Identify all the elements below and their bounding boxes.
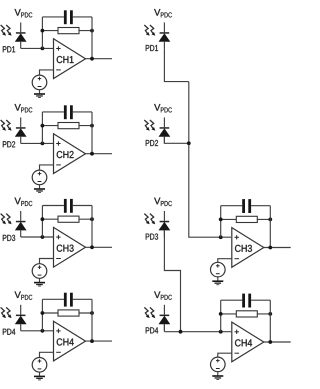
junction node resistor left (CH4) bbox=[41, 311, 45, 315]
wire - input of CH3 to bias source bbox=[218, 259, 232, 263]
output wire of CH4 bbox=[86, 340, 113, 342]
wire from anode of PD2 bbox=[20, 137, 22, 144]
label PD2 bbox=[3, 141, 15, 147]
junction node resistor right (CH4) bbox=[268, 312, 272, 316]
feedback resistor (CH4) bbox=[236, 311, 257, 317]
light arrows into PD3 bbox=[144, 214, 155, 225]
wire PD2 anode to bus bbox=[164, 137, 188, 144]
wire from V_PDC to cathode of PD4 bbox=[20, 305, 22, 315]
junction node at + input of CH4 bbox=[41, 329, 45, 333]
light arrows into PD4 bbox=[144, 307, 155, 318]
junction node at output of CH2 bbox=[90, 152, 94, 156]
feedback right wire (CH1) bbox=[91, 17, 93, 59]
wire photodiode node to + input of CH1 bbox=[21, 47, 54, 49]
light arrows into PD4 bbox=[1, 307, 12, 318]
label PD3 bbox=[3, 235, 15, 241]
wire - input of CH4 to bias source bbox=[218, 353, 232, 357]
wire - input of CH4 to bias source bbox=[40, 352, 54, 357]
wire source to ground (CH3) bbox=[39, 278, 41, 282]
feedback resistor wires (CH4) bbox=[221, 313, 271, 315]
ground (CH4) bbox=[212, 375, 223, 380]
feedback resistor (CH2) bbox=[58, 123, 79, 129]
feedback right wire (CH4) bbox=[91, 299, 93, 341]
junction node resistor right (CH1) bbox=[90, 29, 94, 33]
wire - input of CH3 to bias source bbox=[40, 259, 54, 264]
output wire of CH3 bbox=[264, 247, 291, 249]
wire from V_PDC to cathode of PD3 bbox=[20, 211, 22, 221]
feedback resistor wires (CH2) bbox=[42, 125, 92, 127]
feedback capacitor (CH1) bbox=[64, 10, 73, 24]
op-amp CH3 bbox=[54, 227, 86, 267]
wire from V_PDC to cathode of PD1 bbox=[20, 22, 22, 32]
label PD3 bbox=[146, 234, 158, 240]
wire source to ground (CH1) bbox=[39, 90, 41, 94]
feedback capacitor wires (CH2) bbox=[42, 111, 92, 113]
output wire of CH4 bbox=[264, 341, 291, 343]
feedback resistor (CH3) bbox=[58, 216, 79, 222]
op-amp CH4 bbox=[232, 322, 264, 362]
feedback resistor (CH3) bbox=[236, 216, 257, 222]
supply label V_PDC (PD2) bbox=[15, 104, 33, 112]
junction node resistor left (CH3) bbox=[41, 217, 45, 221]
wire from V_PDC to cathode of PD2 bbox=[20, 117, 22, 127]
feedback left wire (CH4) bbox=[41, 299, 43, 331]
label PD4 bbox=[146, 327, 158, 333]
output wire of CH2 bbox=[86, 153, 113, 155]
ground (CH2) bbox=[34, 188, 45, 193]
wire from V_PDC to cathode of PD4 bbox=[163, 305, 165, 315]
junction node at + input of CH2 bbox=[41, 142, 45, 146]
wire from V_PDC to cathode of PD2 bbox=[163, 117, 165, 127]
feedback resistor wires (CH1) bbox=[42, 30, 92, 32]
wire - input of CH2 to bias source bbox=[40, 165, 54, 170]
bias voltage source (CH4) bbox=[32, 358, 47, 373]
photodiode PD1 bbox=[15, 32, 27, 42]
wire from V_PDC to cathode of PD3 bbox=[163, 211, 165, 221]
bias voltage source (CH3) bbox=[211, 262, 226, 277]
light arrows into PD3 bbox=[1, 214, 12, 225]
junction node PD2/bus bbox=[187, 141, 191, 145]
supply label V_PDC (PD4) bbox=[154, 291, 172, 299]
photodiode PD3 bbox=[15, 221, 27, 231]
feedback capacitor wires (CH3) bbox=[221, 205, 271, 207]
junction node at + input of CH3 bbox=[41, 235, 45, 239]
feedback capacitor (CH2) bbox=[64, 105, 73, 119]
feedback right wire (CH3) bbox=[91, 206, 93, 248]
junction node resistor left (CH4) bbox=[219, 312, 223, 316]
photodiode PD1 bbox=[159, 32, 171, 42]
light arrows into PD2 bbox=[1, 120, 12, 131]
supply label V_PDC (PD2) bbox=[154, 104, 172, 112]
ground (CH3) bbox=[212, 280, 223, 285]
feedback capacitor (CH4) bbox=[64, 293, 73, 307]
junction node resistor right (CH3) bbox=[90, 217, 94, 221]
feedback capacitor wires (CH4) bbox=[42, 298, 92, 300]
wire PD4 anode to CH4 input node bbox=[163, 324, 165, 332]
feedback left wire (CH2) bbox=[41, 112, 43, 143]
supply label V_PDC (PD3) bbox=[15, 198, 33, 206]
feedback resistor wires (CH3) bbox=[42, 218, 92, 220]
supply label V_PDC (PD1) bbox=[15, 9, 33, 17]
wire photodiode node to + input of CH2 bbox=[21, 142, 54, 144]
photodiode PD3 bbox=[159, 221, 171, 231]
op-amp CH1 bbox=[54, 39, 86, 79]
bias voltage source (CH3) bbox=[32, 264, 47, 279]
junction node PD3/PD4 bbox=[179, 330, 183, 334]
feedback right wire (CH2) bbox=[91, 112, 93, 154]
feedback left wire (CH4) bbox=[220, 300, 222, 332]
feedback resistor wires (CH4) bbox=[42, 312, 92, 314]
junction node resistor left (CH3) bbox=[219, 218, 223, 222]
light arrows into PD2 bbox=[144, 120, 155, 131]
wire photodiode node to + input of CH4 bbox=[21, 330, 54, 332]
bias voltage source (CH4) bbox=[211, 357, 226, 372]
label PD1 bbox=[146, 45, 158, 51]
light arrows into PD1 bbox=[1, 25, 12, 36]
photodiode PD2 bbox=[159, 127, 171, 137]
op-amp CH2 bbox=[54, 134, 86, 174]
label PD4 bbox=[3, 329, 15, 335]
junction node at output of CH4 bbox=[268, 340, 272, 344]
junction node at + input of CH3 bbox=[219, 235, 223, 239]
photodiode PD4 bbox=[159, 315, 171, 325]
junction node at + input of CH4 bbox=[219, 330, 223, 334]
feedback left wire (CH3) bbox=[220, 206, 222, 238]
wire PD3 anode down, jog right, down to CH4 input bbox=[164, 230, 180, 331]
wire source to ground (CH2) bbox=[39, 185, 41, 189]
feedback resistor wires (CH3) bbox=[221, 218, 271, 220]
photodiode PD2 bbox=[15, 127, 27, 137]
op-amp CH3 bbox=[232, 228, 264, 268]
ground (CH1) bbox=[34, 93, 45, 98]
ground (CH3) bbox=[34, 282, 45, 287]
feedback right wire (CH3) bbox=[269, 206, 271, 248]
ground (CH4) bbox=[34, 376, 45, 381]
supply label V_PDC (PD4) bbox=[15, 291, 33, 299]
wire PD1 anode down and right to bus bbox=[164, 48, 188, 81]
wire from anode of PD2 bbox=[163, 137, 165, 144]
wire from anode of PD1 bbox=[20, 42, 22, 49]
feedback capacitor wires (CH4) bbox=[221, 299, 271, 301]
wire from anode of PD3 bbox=[163, 230, 165, 237]
feedback resistor (CH1) bbox=[58, 28, 79, 34]
junction node resistor left (CH2) bbox=[41, 124, 45, 128]
output wire of CH1 bbox=[86, 58, 113, 60]
wire source to ground (CH4) bbox=[217, 372, 219, 376]
wire from anode of PD4 bbox=[163, 324, 165, 331]
bias voltage source (CH1) bbox=[32, 75, 47, 90]
wire from anode of PD1 bbox=[163, 42, 165, 49]
op-amp CH4 bbox=[54, 321, 86, 361]
feedback capacitor (CH3) bbox=[242, 199, 251, 213]
junction node resistor right (CH3) bbox=[268, 218, 272, 222]
junction node at + input of CH1 bbox=[41, 47, 45, 51]
bias voltage source (CH2) bbox=[32, 170, 47, 185]
feedback capacitor wires (CH1) bbox=[42, 16, 92, 18]
junction node at output of CH3 bbox=[268, 246, 272, 250]
wire photodiode node to + input of CH3 bbox=[21, 236, 54, 238]
wire from anode of PD4 bbox=[20, 324, 22, 331]
wire source to ground (CH3) bbox=[217, 277, 219, 281]
light arrows into PD1 bbox=[144, 25, 155, 36]
feedback right wire (CH4) bbox=[269, 300, 271, 342]
label PD1 bbox=[3, 46, 15, 52]
feedback left wire (CH1) bbox=[41, 17, 43, 49]
photodiode PD4 bbox=[15, 315, 27, 325]
junction node resistor right (CH4) bbox=[90, 311, 94, 315]
junction node resistor left (CH1) bbox=[41, 29, 45, 33]
wire source to ground (CH4) bbox=[39, 372, 41, 376]
wire from anode of PD3 bbox=[20, 230, 22, 237]
output wire of CH3 bbox=[86, 246, 113, 248]
supply label V_PDC (PD1) bbox=[154, 9, 172, 17]
supply label V_PDC (PD3) bbox=[154, 198, 172, 206]
wire - input of CH1 to bias source bbox=[40, 70, 54, 75]
junction node at output of CH4 bbox=[90, 339, 94, 343]
feedback resistor (CH4) bbox=[58, 310, 79, 316]
feedback capacitor (CH4) bbox=[242, 294, 251, 308]
junction node at output of CH1 bbox=[90, 57, 94, 61]
junction node resistor right (CH2) bbox=[90, 124, 94, 128]
feedback capacitor wires (CH3) bbox=[42, 205, 92, 207]
junction node at output of CH3 bbox=[90, 245, 94, 249]
bus wire down to CH3 input bbox=[189, 82, 231, 238]
label PD2 bbox=[146, 140, 158, 146]
feedback capacitor (CH3) bbox=[64, 199, 73, 213]
wire from V_PDC to cathode of PD1 bbox=[163, 22, 165, 32]
feedback left wire (CH3) bbox=[41, 206, 43, 238]
